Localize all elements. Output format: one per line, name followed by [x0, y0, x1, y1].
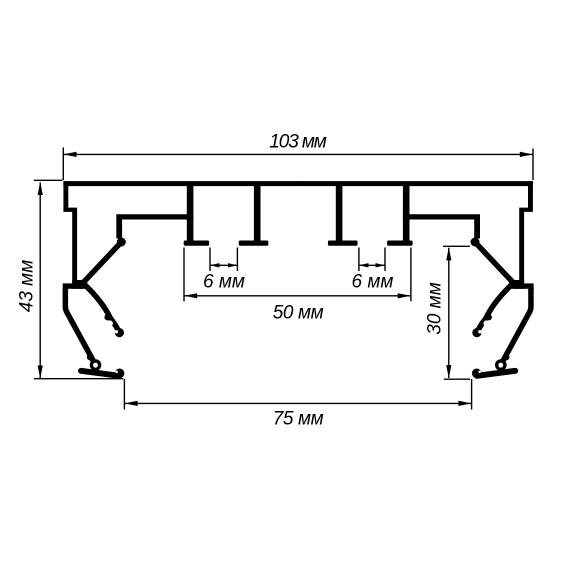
- arrow 6a left: [210, 263, 220, 267]
- ext line 50 right: [410, 248, 412, 302]
- arrow 50 left: [184, 293, 197, 298]
- ext line 6b left: [358, 248, 360, 272]
- profile right half (mirror): [298, 181, 534, 378]
- ext line 50 left: [183, 248, 185, 302]
- arrow 75 right: [458, 401, 471, 406]
- dim line 103: [63, 153, 533, 155]
- ext line 6b right: [384, 248, 386, 272]
- dim line 30: [448, 248, 450, 378]
- dim line 75: [124, 402, 471, 404]
- arrow 6b right: [376, 263, 386, 267]
- ext line 103 right: [532, 149, 534, 181]
- ext line 43 bottom: [34, 378, 124, 380]
- svg-text:6 мм: 6 мм: [352, 271, 394, 292]
- ext line 103 left: [62, 148, 64, 181]
- arrow 43 bottom: [38, 366, 43, 379]
- svg-text:6 мм: 6 мм: [203, 271, 245, 292]
- arrow 6b left: [359, 263, 369, 267]
- arrow 75 left: [124, 401, 137, 406]
- ext line 30 bottom: [444, 378, 470, 380]
- arrow 43 top: [38, 182, 43, 195]
- ext line 6a right: [236, 248, 238, 272]
- ext line 75 right: [471, 379, 473, 410]
- svg-text:30 мм: 30 мм: [424, 282, 445, 334]
- arrow 6a right: [228, 263, 238, 267]
- svg-text:103 мм: 103 мм: [269, 131, 327, 152]
- svg-text:75 мм: 75 мм: [273, 409, 324, 430]
- ext line 43 top: [34, 179, 63, 181]
- arrow 30 bottom: [446, 365, 451, 378]
- dim line 6a: [210, 264, 237, 266]
- arrow 103 left: [63, 152, 76, 157]
- ext line 6a left: [209, 248, 211, 272]
- arrow 30 top: [446, 247, 451, 260]
- ext line 75 left: [123, 379, 125, 410]
- arrow 50 right: [398, 293, 411, 298]
- arrow 103 right: [520, 152, 533, 157]
- dim line 50: [184, 295, 411, 297]
- svg-text:50 мм: 50 мм: [273, 302, 324, 323]
- profile left half: [63, 181, 299, 378]
- ext line 30 top: [443, 245, 470, 247]
- dim line 6b: [359, 264, 385, 266]
- svg-text:43 мм: 43 мм: [16, 260, 37, 312]
- dim line 43: [39, 183, 41, 379]
